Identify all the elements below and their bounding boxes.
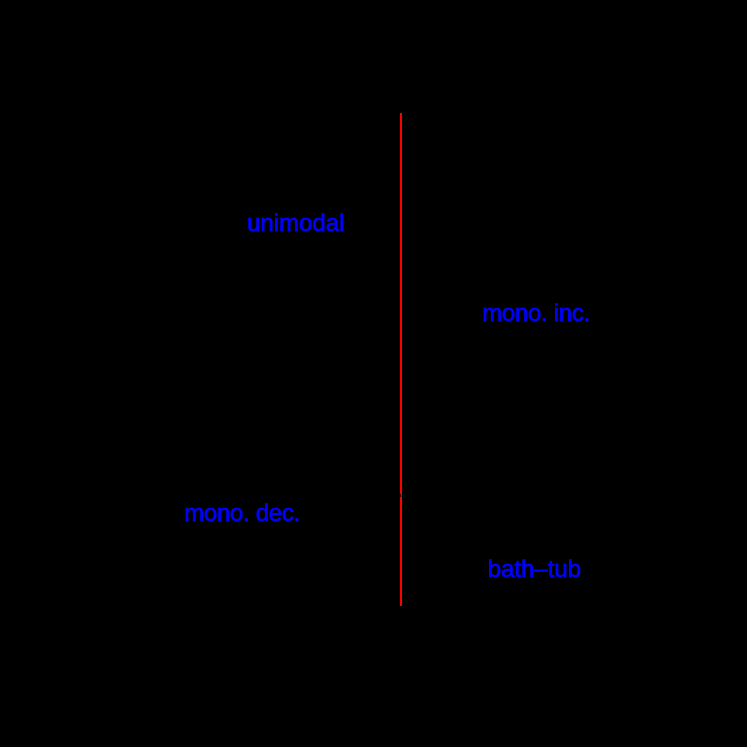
black curve crossing notch on red line xyxy=(400,494,401,497)
red vertical threshold line xyxy=(400,113,402,607)
label: mono. inc. xyxy=(482,302,590,326)
label: bath-tub xyxy=(488,558,581,582)
label: mono. dec. xyxy=(184,502,300,526)
label: unimodal xyxy=(247,212,344,236)
